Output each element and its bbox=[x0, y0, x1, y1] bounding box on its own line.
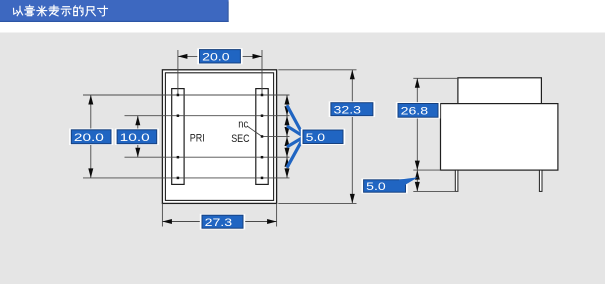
svg-text:5.0: 5.0 bbox=[306, 132, 326, 144]
svg-text:10.0: 10.0 bbox=[120, 132, 150, 144]
svg-text:PRI: PRI bbox=[190, 132, 205, 144]
svg-text:32.3: 32.3 bbox=[334, 104, 362, 116]
svg-text:5.0: 5.0 bbox=[366, 181, 386, 193]
svg-text:27.3: 27.3 bbox=[205, 217, 233, 229]
svg-text:SEC: SEC bbox=[231, 133, 249, 145]
svg-text:26.8: 26.8 bbox=[401, 106, 429, 118]
svg-text:nc: nc bbox=[238, 119, 248, 131]
svg-text:20.0: 20.0 bbox=[202, 52, 230, 64]
svg-text:20.0: 20.0 bbox=[74, 132, 104, 144]
